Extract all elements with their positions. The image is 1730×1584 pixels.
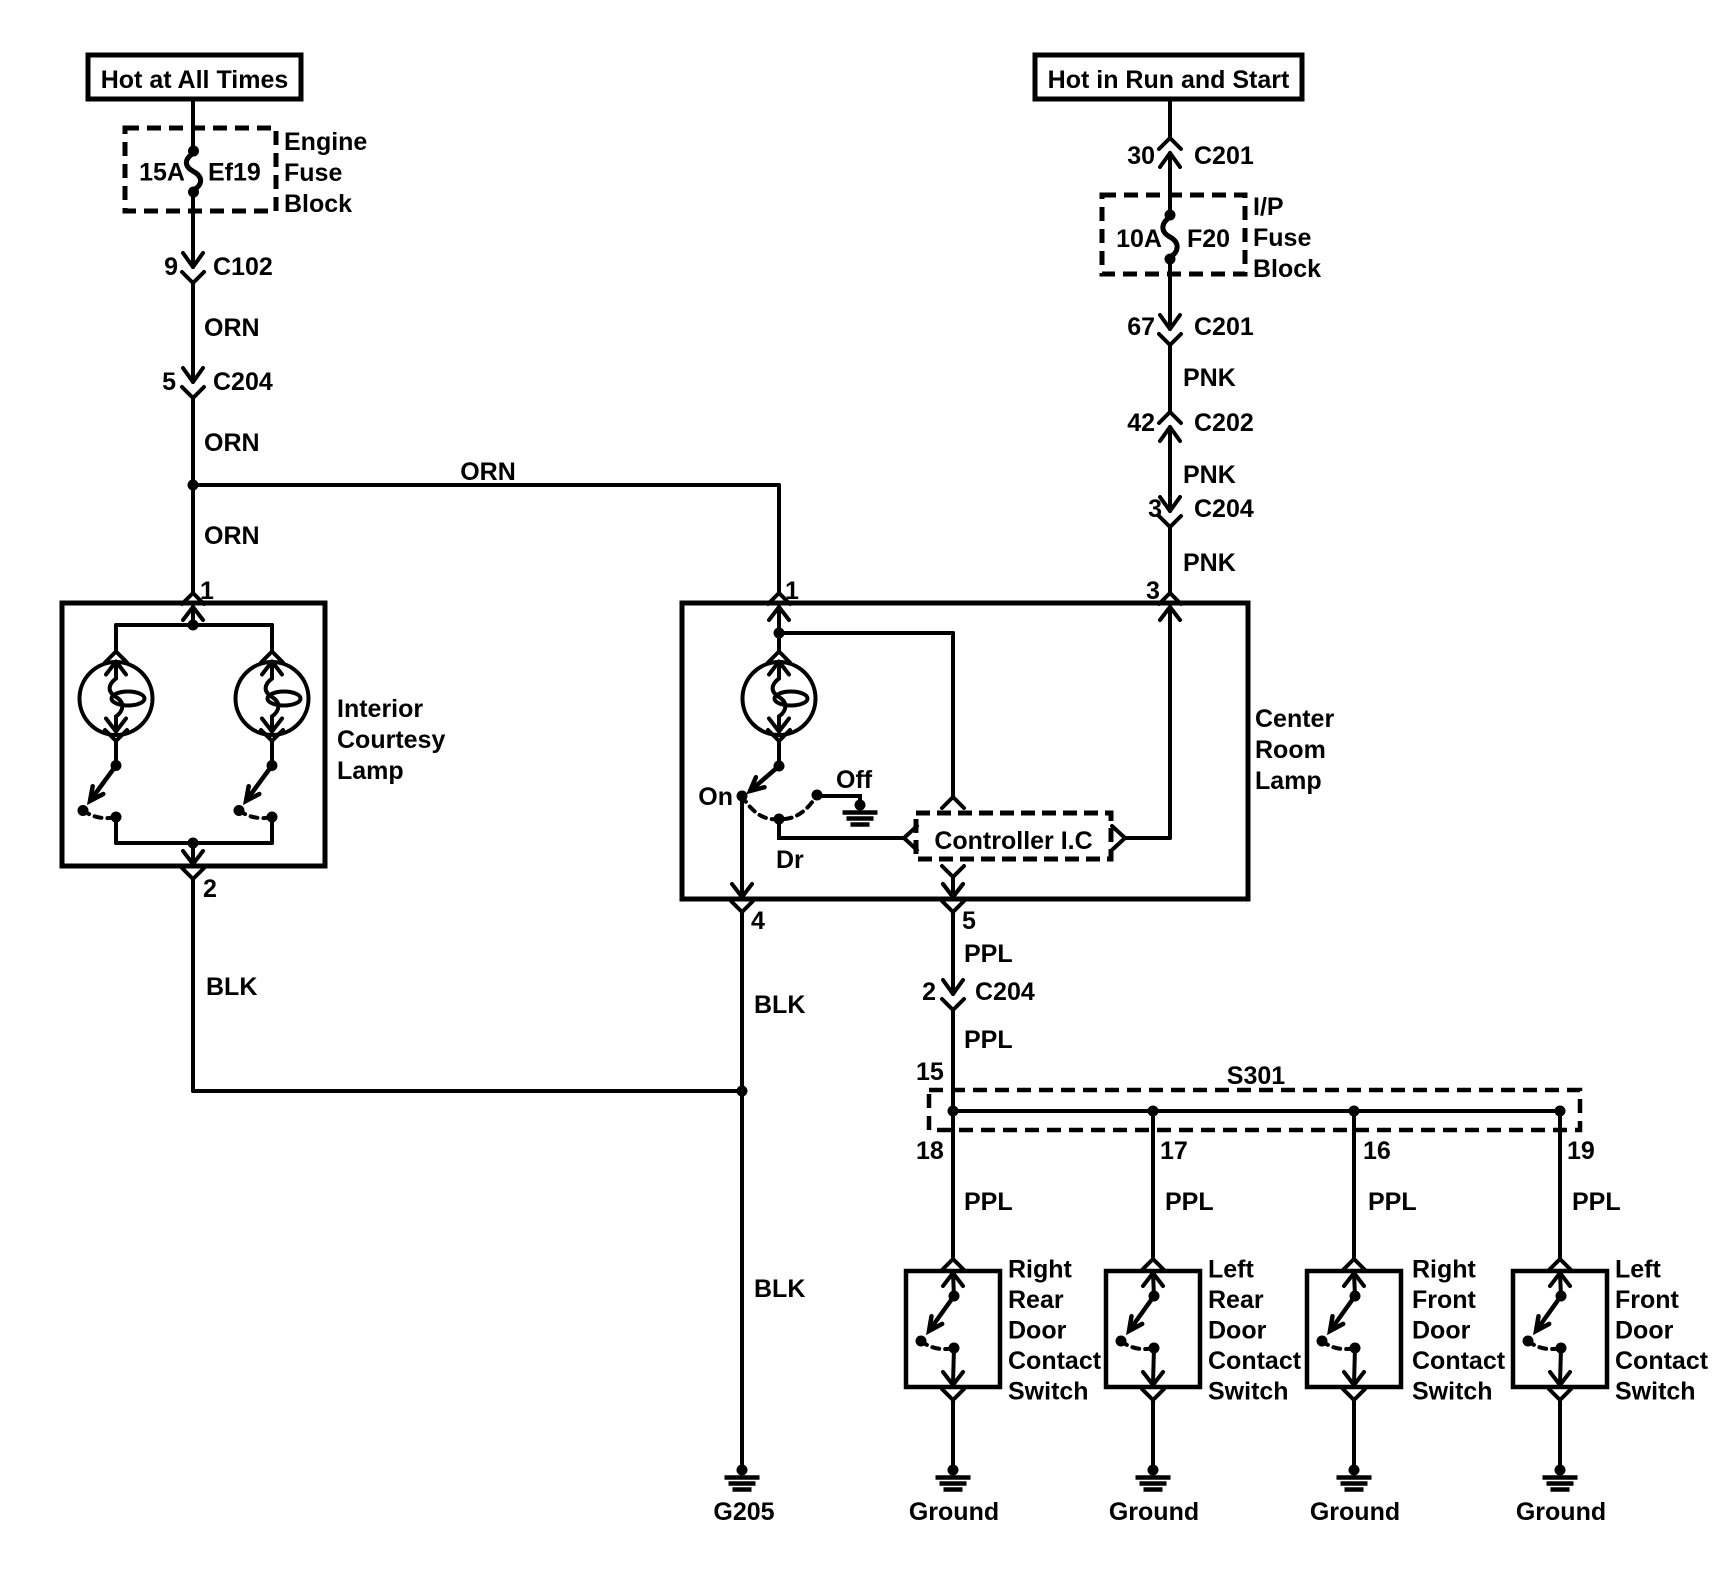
Center lamp pin 1 <box>768 593 790 620</box>
svg-text:10A: 10A <box>1116 225 1162 253</box>
svg-text:Switch: Switch <box>1208 1378 1289 1406</box>
wire pin1 to junction <box>777 607 781 633</box>
left switch dashed throw <box>83 811 116 819</box>
svg-text:BLK: BLK <box>206 973 257 1001</box>
Left Rear Door Contact Switch lower dot <box>1149 1343 1160 1354</box>
Right Front Door Contact Switch label <box>1412 1256 1506 1406</box>
Left Front Door Contact Switch pin bottom <box>1549 1372 1571 1400</box>
connector C201 pin 30 <box>1159 138 1181 167</box>
wire pin 3 down inside box <box>1168 607 1172 838</box>
wire left switch to bottom rail <box>114 817 118 843</box>
svg-text:PPL: PPL <box>964 1026 1013 1054</box>
svg-text:Front: Front <box>1412 1286 1477 1314</box>
wire PPL to right rear door switch <box>951 1111 955 1257</box>
wire PPL to right front door switch <box>1352 1111 1356 1257</box>
svg-text:PPL: PPL <box>1572 1188 1621 1216</box>
Right Front Door Contact Switch lower dot <box>1350 1343 1361 1354</box>
svg-text:PNK: PNK <box>1183 364 1236 392</box>
power label box: Hot in Run and Start <box>1035 55 1302 99</box>
Right Rear Door Contact Switch label <box>1008 1256 1102 1406</box>
svg-text:Ground: Ground <box>1310 1498 1400 1526</box>
splice junction 18 <box>948 1106 959 1117</box>
Left Front Door Contact Switch label <box>1615 1256 1709 1406</box>
Center lamp pin 3 <box>1159 593 1181 620</box>
svg-text:Contact: Contact <box>1615 1347 1709 1375</box>
ground right rear door switch <box>936 1465 971 1490</box>
svg-text:C201: C201 <box>1194 313 1254 341</box>
wire ORN horizontal branch <box>193 483 779 487</box>
svg-text:ORN: ORN <box>460 458 516 486</box>
wire from Hot in Run and Start to C201 <box>1168 99 1172 138</box>
svg-text:42: 42 <box>1127 409 1155 437</box>
wire fuse Ef19 to C102 <box>191 192 195 267</box>
svg-text:15: 15 <box>916 1058 944 1086</box>
Right Front Door Contact Switch internal wire <box>1354 1273 1355 1296</box>
svg-text:Controller I.C: Controller I.C <box>934 827 1092 855</box>
Interior lamp pin 2 <box>182 851 204 879</box>
svg-text:Fuse: Fuse <box>284 159 342 187</box>
wire right rear switch to ground <box>951 1400 955 1470</box>
wire BLK pin 2 down <box>191 879 195 1091</box>
Left Front Door Contact Switch box <box>1513 1271 1607 1387</box>
svg-text:19: 19 <box>1567 1137 1595 1165</box>
Right Front Door Contact Switch blade <box>1330 1296 1355 1331</box>
svg-text:Off: Off <box>836 766 873 794</box>
svg-text:PNK: PNK <box>1183 549 1236 577</box>
switch contact Off dot <box>812 790 823 801</box>
wire left bulb to switch <box>114 741 118 766</box>
svg-text:5: 5 <box>162 368 176 396</box>
Controller I.C dashed box <box>916 813 1111 859</box>
svg-text:Room: Room <box>1255 736 1326 764</box>
splice junction 16 <box>1349 1106 1360 1117</box>
left switch blade <box>90 766 116 802</box>
svg-text:16: 16 <box>1363 1137 1391 1165</box>
wire right front switch to ground <box>1352 1400 1356 1470</box>
svg-text:Engine: Engine <box>284 128 367 156</box>
I/P Fuse Block dashed box <box>1102 195 1245 274</box>
svg-text:S301: S301 <box>1227 1062 1285 1090</box>
Right Front Door Contact Switch dashed throw <box>1322 1341 1355 1349</box>
svg-text:Rear: Rear <box>1208 1286 1264 1314</box>
svg-text:C204: C204 <box>975 978 1035 1006</box>
svg-text:2: 2 <box>922 978 936 1006</box>
wire ORN down to center lamp pin 1 <box>777 485 781 591</box>
junction inner rail bottom <box>188 838 199 849</box>
junction center lamp feed <box>774 628 785 639</box>
Right Rear Door Contact Switch dashed throw <box>921 1341 954 1349</box>
wire ORN C102 to C204 <box>191 283 195 382</box>
Left Rear Door Contact Switch pin top <box>1142 1259 1164 1286</box>
wire down to controller top <box>951 633 955 796</box>
svg-text:C201: C201 <box>1194 142 1254 170</box>
svg-text:F20: F20 <box>1187 225 1230 253</box>
wire left rear switch to ground <box>1151 1400 1155 1470</box>
wire fuse F20 to C201 pin 67 <box>1168 259 1172 329</box>
wire junction to controller drop <box>779 631 953 635</box>
svg-text:Hot at All Times: Hot at All Times <box>101 66 289 94</box>
lamp bulb left <box>80 652 153 742</box>
Engine Fuse Block dashed box <box>125 128 276 211</box>
svg-text:Interior: Interior <box>337 695 423 723</box>
svg-text:3: 3 <box>1148 495 1162 523</box>
svg-text:C204: C204 <box>1194 495 1254 523</box>
wire right switch to bottom rail <box>270 817 274 843</box>
svg-text:BLK: BLK <box>754 991 805 1019</box>
svg-text:3: 3 <box>1146 577 1160 605</box>
svg-text:17: 17 <box>1160 1137 1188 1165</box>
Left Rear Door Contact Switch label <box>1208 1256 1302 1406</box>
Right Front Door Contact Switch contact dot <box>1317 1336 1328 1347</box>
svg-text:PPL: PPL <box>1165 1188 1214 1216</box>
svg-text:Fuse: Fuse <box>1253 224 1311 252</box>
svg-text:PPL: PPL <box>964 1188 1013 1216</box>
wire left front switch to ground <box>1558 1400 1562 1470</box>
Right Rear Door Contact Switch contact dot <box>916 1336 927 1347</box>
Right Rear Door Contact Switch box <box>906 1271 1000 1387</box>
Left Rear Door Contact Switch internal wire <box>1153 1273 1154 1296</box>
Right Front Door Contact Switch pivot dot <box>1350 1291 1361 1302</box>
center switch blade <box>750 766 779 791</box>
label Center Room Lamp <box>1255 705 1334 795</box>
ground G205 <box>725 1465 760 1490</box>
Center lamp pin 5 <box>942 884 964 912</box>
svg-text:C102: C102 <box>213 253 273 281</box>
wire PPL C204 to S301 <box>951 1010 955 1111</box>
center switch pivot dot <box>774 761 785 772</box>
svg-text:Contact: Contact <box>1008 1347 1102 1375</box>
wire PNK C204 to center lamp pin 3 <box>1168 527 1172 591</box>
svg-text:G205: G205 <box>713 1498 774 1526</box>
svg-text:Door: Door <box>1412 1317 1471 1345</box>
svg-text:Front: Front <box>1615 1286 1680 1314</box>
svg-text:Ground: Ground <box>1109 1498 1199 1526</box>
lamp bulb center <box>743 652 816 742</box>
lamp bulb right <box>236 652 309 742</box>
controller right chevron pin <box>1112 826 1125 850</box>
wire BLK horizontal <box>193 1089 742 1093</box>
Left Front Door Contact Switch internal wire <box>1560 1273 1561 1296</box>
Left Front Door Contact Switch pivot dot <box>1556 1291 1567 1302</box>
svg-text:2: 2 <box>203 875 217 903</box>
power label box: Hot at All Times <box>88 55 301 99</box>
left switch lower dot <box>111 812 122 823</box>
Right Front Door Contact Switch box <box>1307 1271 1401 1387</box>
right switch lower dot <box>267 812 278 823</box>
left switch pivot dot <box>111 760 122 771</box>
connector C202 pin 42 <box>1159 412 1181 441</box>
right switch blade <box>246 766 272 802</box>
Right Rear Door Contact Switch pin bottom <box>942 1372 964 1400</box>
svg-text:Block: Block <box>284 190 352 218</box>
svg-text:9: 9 <box>164 253 178 281</box>
Left Front Door Contact Switch blade <box>1536 1296 1561 1331</box>
wire Dr to controller <box>779 819 904 838</box>
svg-text:30: 30 <box>1127 142 1155 170</box>
svg-text:Left: Left <box>1208 1256 1255 1284</box>
switch dashed throw arc <box>742 795 817 819</box>
wire inner bottom rail <box>116 841 272 845</box>
connector C201 pin 67 <box>1159 315 1181 345</box>
svg-text:Right: Right <box>1412 1256 1477 1284</box>
Left Rear Door Contact Switch box <box>1106 1271 1200 1387</box>
connector C204 pin 5 <box>182 368 204 398</box>
svg-text:Ground: Ground <box>1516 1498 1606 1526</box>
Center lamp pin 4 <box>731 884 753 912</box>
svg-text:Courtesy: Courtesy <box>337 726 445 754</box>
Right Front Door Contact Switch pin bottom <box>1343 1372 1365 1400</box>
label I/P Fuse Block <box>1253 193 1321 283</box>
Right Rear Door Contact Switch internal wire lower <box>953 1348 954 1384</box>
Left Rear Door Contact Switch contact dot <box>1116 1336 1127 1347</box>
left switch contact dot <box>78 805 89 816</box>
controller top chevron pin <box>942 797 964 808</box>
ground right front door switch <box>1337 1465 1372 1490</box>
Interior lamp pin 1 <box>182 593 204 620</box>
svg-text:PNK: PNK <box>1183 461 1236 489</box>
svg-text:Left: Left <box>1615 1256 1662 1284</box>
svg-text:15A: 15A <box>139 159 185 187</box>
splice S301 dashed box <box>929 1090 1580 1130</box>
svg-text:C202: C202 <box>1194 409 1254 437</box>
wire to controller right <box>1126 836 1170 840</box>
right switch pivot dot <box>267 760 278 771</box>
Right Rear Door Contact Switch pivot dot <box>949 1291 960 1302</box>
connector C204 pin 3 <box>1159 497 1181 527</box>
svg-text:Switch: Switch <box>1008 1378 1089 1406</box>
wire PNK C202 to C204 <box>1168 427 1172 511</box>
splice junction 17 <box>1148 1106 1159 1117</box>
wire pin1 to inner rail <box>191 607 195 625</box>
label Engine Fuse Block <box>284 128 367 218</box>
svg-text:Door: Door <box>1208 1317 1267 1345</box>
Left Front Door Contact Switch internal wire lower <box>1560 1348 1561 1384</box>
svg-text:Center: Center <box>1255 705 1334 733</box>
Right Rear Door Contact Switch pin top <box>942 1259 964 1286</box>
wire from Hot at All Times to fuse Ef19 <box>191 99 195 151</box>
wire PPL to left front door switch <box>1558 1111 1562 1257</box>
svg-text:5: 5 <box>962 907 976 935</box>
fuse F20 10A <box>1163 210 1177 265</box>
svg-text:Hot in Run and Start: Hot in Run and Start <box>1048 66 1290 94</box>
Interior Courtesy Lamp box <box>62 603 325 866</box>
ground at Off contact <box>843 800 878 825</box>
Left Front Door Contact Switch dashed throw <box>1528 1341 1561 1349</box>
switch contact Dr dot <box>774 814 785 825</box>
Left Rear Door Contact Switch pin bottom <box>1142 1372 1164 1400</box>
svg-text:PPL: PPL <box>1368 1188 1417 1216</box>
switch contact On dot <box>737 791 748 802</box>
svg-text:Switch: Switch <box>1615 1378 1696 1406</box>
svg-text:Ground: Ground <box>909 1498 999 1526</box>
Right Rear Door Contact Switch internal wire <box>953 1273 954 1296</box>
Left Rear Door Contact Switch internal wire lower <box>1153 1348 1154 1384</box>
wire C201 to fuse F20 <box>1168 153 1172 215</box>
svg-text:Ef19: Ef19 <box>208 159 261 187</box>
Left Front Door Contact Switch contact dot <box>1523 1336 1534 1347</box>
svg-text:67: 67 <box>1127 313 1155 341</box>
splice junction 19 <box>1555 1106 1566 1117</box>
svg-text:Contact: Contact <box>1412 1347 1506 1375</box>
svg-text:PPL: PPL <box>964 940 1013 968</box>
svg-text:Lamp: Lamp <box>337 757 404 785</box>
wire right bulb to switch <box>270 741 274 766</box>
fuse Ef19 15A <box>186 146 200 198</box>
Left Front Door Contact Switch pin top <box>1549 1259 1571 1286</box>
svg-text:ORN: ORN <box>204 522 260 550</box>
svg-text:C204: C204 <box>213 368 273 396</box>
wire to right bulb <box>270 625 274 651</box>
svg-text:Dr: Dr <box>776 846 804 874</box>
wire PPL to left rear door switch <box>1151 1111 1155 1257</box>
wire junction to bulb <box>777 633 781 651</box>
svg-text:4: 4 <box>751 907 765 935</box>
Left Rear Door Contact Switch blade <box>1129 1296 1154 1331</box>
right switch dashed throw <box>239 811 272 819</box>
right switch contact dot <box>234 805 245 816</box>
Left Rear Door Contact Switch dashed throw <box>1121 1341 1154 1349</box>
Left Front Door Contact Switch lower dot <box>1556 1343 1567 1354</box>
svg-text:Lamp: Lamp <box>1255 767 1322 795</box>
svg-text:18: 18 <box>916 1137 944 1165</box>
wire ORN C204 to lamp pin 1 <box>191 398 195 592</box>
junction node ORN splice <box>188 480 199 491</box>
svg-text:Switch: Switch <box>1412 1378 1493 1406</box>
junction BLK <box>737 1086 748 1097</box>
wire rail to pin 2 <box>191 843 195 863</box>
wire splice bus S301 <box>953 1109 1560 1113</box>
Center Room Lamp box <box>682 603 1248 899</box>
svg-text:On: On <box>698 783 733 811</box>
svg-text:I/P: I/P <box>1253 193 1284 221</box>
svg-text:Door: Door <box>1008 1317 1067 1345</box>
svg-text:BLK: BLK <box>754 1275 805 1303</box>
svg-text:Right: Right <box>1008 1256 1073 1284</box>
svg-text:Block: Block <box>1253 255 1321 283</box>
wire inner top rail <box>116 623 272 627</box>
wire Off to ground <box>817 796 860 805</box>
Left Rear Door Contact Switch pivot dot <box>1149 1291 1160 1302</box>
wire PPL pin 5 to C204 <box>951 912 955 994</box>
Right Rear Door Contact Switch blade <box>929 1296 954 1331</box>
wire bulb to switch pivot <box>777 741 781 766</box>
controller bottom pin <box>942 866 964 897</box>
svg-text:Door: Door <box>1615 1317 1674 1345</box>
connector C102 pin 9 <box>182 253 204 283</box>
label Interior Courtesy Lamp <box>337 695 445 785</box>
svg-text:ORN: ORN <box>204 314 260 342</box>
wire PNK C201 to C202 <box>1168 345 1172 412</box>
controller left chevron pin <box>904 826 917 850</box>
junction inner rail top <box>188 620 199 631</box>
svg-text:ORN: ORN <box>204 429 260 457</box>
Right Front Door Contact Switch internal wire lower <box>1354 1348 1355 1384</box>
Right Front Door Contact Switch pin top <box>1343 1259 1365 1286</box>
wire On to pin 4 <box>740 796 744 897</box>
ground left front door switch <box>1543 1465 1578 1490</box>
wire BLK pin 4 to G205 <box>740 912 744 1470</box>
connector C204 pin 2 <box>942 980 964 1010</box>
ground left rear door switch <box>1136 1465 1171 1490</box>
svg-text:Contact: Contact <box>1208 1347 1302 1375</box>
wire to left bulb <box>114 625 118 651</box>
Right Rear Door Contact Switch lower dot <box>949 1343 960 1354</box>
svg-text:Rear: Rear <box>1008 1286 1064 1314</box>
